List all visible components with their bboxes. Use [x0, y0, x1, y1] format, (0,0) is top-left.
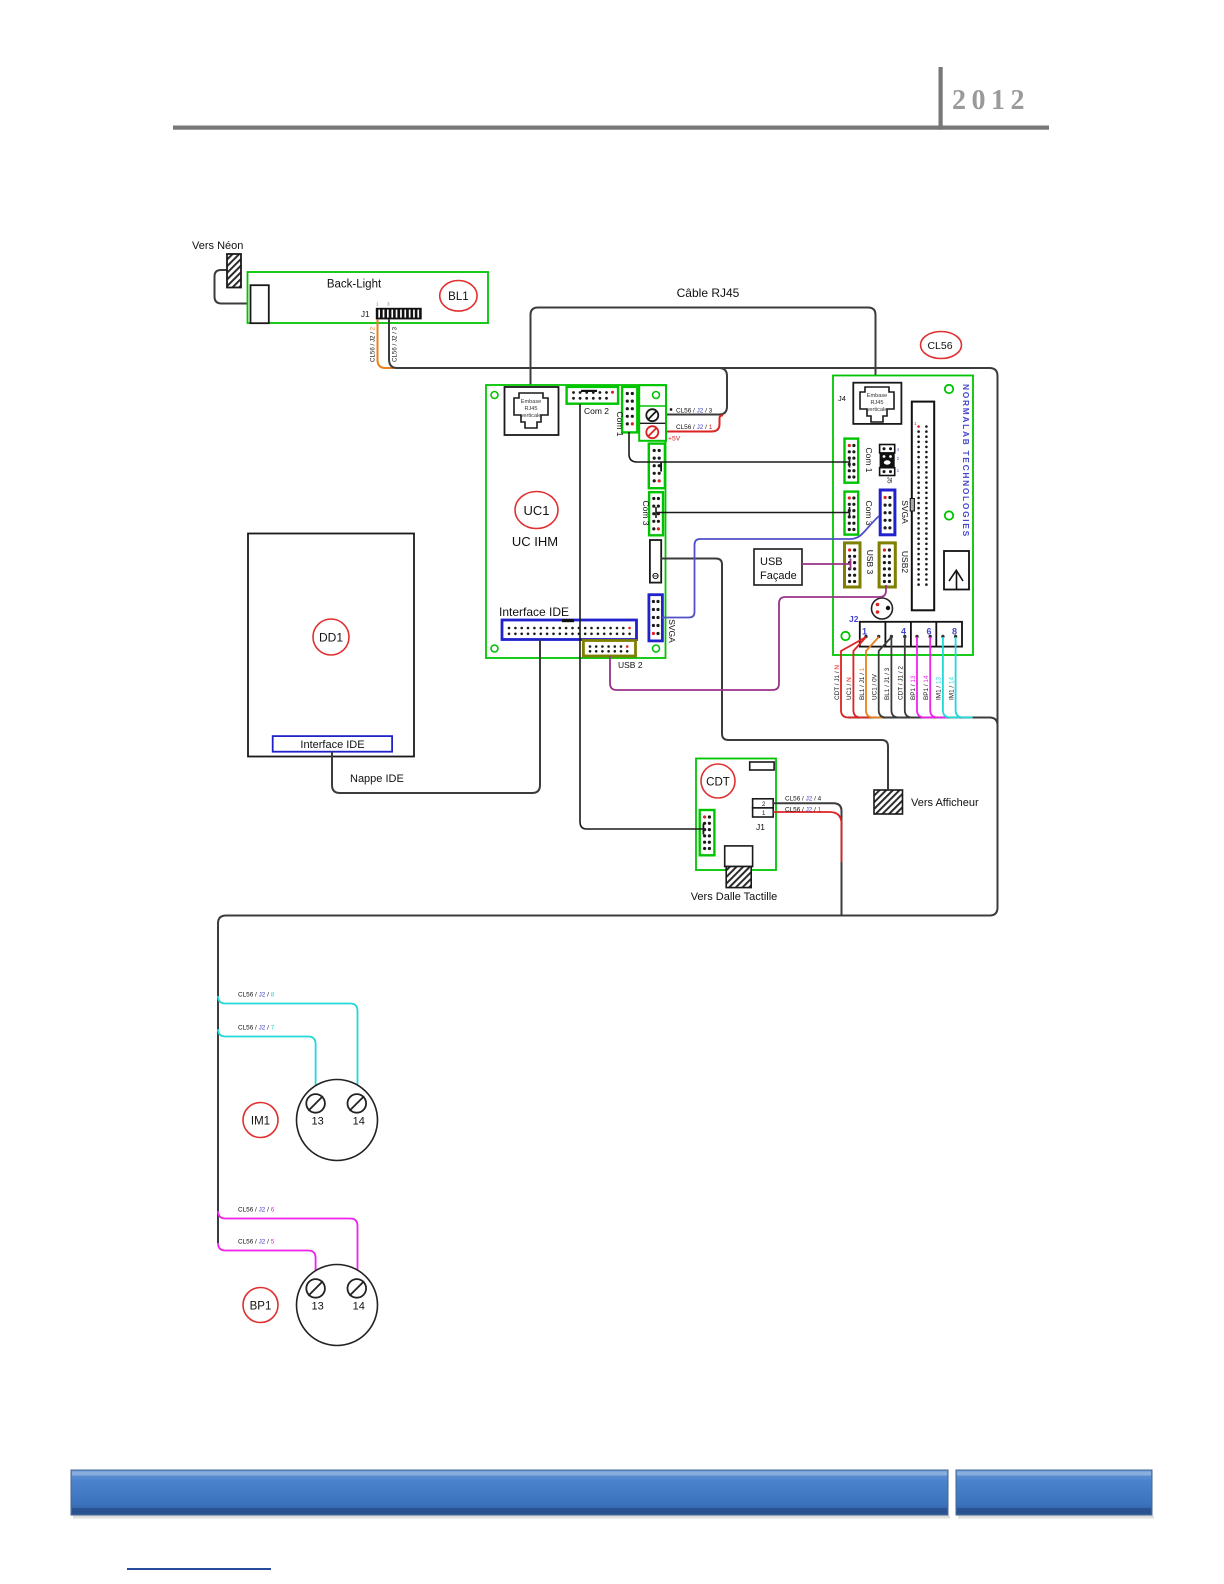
- footer bar left: [71, 1470, 950, 1519]
- wire USB Façade to CL56 USB3 (purple): [802, 559, 851, 570]
- label CDT / J1 / 2 (rotated): [898, 666, 905, 700]
- board DD1: [248, 534, 414, 757]
- designator circle DD1: [313, 619, 349, 655]
- label J1 (BL1): [361, 310, 370, 319]
- wire J2 BL1 / J1 / 1: [866, 637, 883, 718]
- svg-text:Embase: Embase: [867, 393, 888, 399]
- svg-text:Interface IDE: Interface IDE: [499, 605, 569, 619]
- board UC1 outline: [486, 385, 666, 658]
- svg-text:BL1: BL1: [448, 291, 468, 303]
- label IM1 / 14 (rotated): [948, 676, 955, 700]
- svg-text:J2: J2: [849, 614, 859, 624]
- jumper pin marks (blue): [897, 447, 900, 473]
- wire CDT J1 pin2 to bus (black) CL56/J2/4: [773, 803, 841, 915]
- svg-text:Vers Néon: Vers Néon: [192, 240, 243, 252]
- terminal strip J2: [860, 622, 962, 647]
- svg-text:NORMALAB TECHNOLOGIES: NORMALAB TECHNOLOGIES: [961, 384, 971, 538]
- wire J2 UC1 / N: [853, 637, 870, 718]
- label CL56 / J2 / 7: [238, 1025, 275, 1032]
- label UC1 / N (rotated): [846, 677, 853, 700]
- connector Com 3 (UC1): [649, 492, 663, 535]
- connector J1 (CDT): [753, 799, 774, 817]
- svg-text:UC1 / 0V: UC1 / 0V: [872, 673, 879, 700]
- label CL56 / J2 / 3 (rotated, BL1 black wire): [392, 326, 399, 362]
- label Vers Dalle Tactille: [691, 891, 778, 903]
- designator circle IM1: [243, 1103, 278, 1138]
- svg-text:CL56 / J2 / 6: CL56 / J2 / 6: [238, 1207, 275, 1214]
- label Vers Néon: [192, 240, 243, 252]
- label Com 3 (UC1, rotated): [641, 500, 651, 525]
- label CL56 / J2 / 5: [238, 1239, 275, 1246]
- connector USB 2 (UC1): [583, 641, 635, 657]
- svg-text:14: 14: [353, 1300, 365, 1312]
- svg-text:J1: J1: [756, 822, 765, 832]
- svg-text:CL56 / J2 / 1: CL56 / J2 / 1: [676, 424, 713, 431]
- label UC1 / 0V (rotated): [872, 673, 879, 700]
- wire neon connector to BL1: [215, 270, 252, 304]
- terminal 14 (BP1): [348, 1279, 367, 1312]
- label Com 3 (CL56, rotated): [864, 500, 874, 525]
- connector SVGA (UC1): [649, 595, 663, 641]
- label CL56 / J2 / 1 (CDT): [785, 806, 822, 813]
- svg-text:UC1 / N: UC1 / N: [846, 677, 853, 700]
- svg-text:USB: USB: [760, 556, 783, 568]
- svg-text:J5: J5: [886, 477, 893, 484]
- designator circle CDT: [701, 764, 735, 798]
- wire UC1 Com2 to CDT connector: [580, 404, 704, 835]
- label CL56 / J2 / 8: [238, 992, 275, 999]
- svg-text:CL56 / J2 / 5: CL56 / J2 / 5: [238, 1239, 275, 1246]
- connector CDT left (green): [700, 810, 715, 855]
- label SVGA (UC1, rotated): [667, 619, 677, 643]
- hatched connector Vers Afficheur: [874, 790, 903, 814]
- wire CL56/J2/5 to BP1 13 (magenta): [218, 1243, 316, 1279]
- svg-text:J4: J4: [838, 394, 846, 403]
- label BL1 / J1 / 1 (rotated): [859, 667, 866, 700]
- label CDT / J1 / N (rotated): [834, 665, 841, 700]
- label Vers Afficheur: [911, 797, 979, 809]
- wire CDT J1 pin1 (red) CL56/J2/1: [773, 812, 841, 862]
- svg-text:IM1 / 14: IM1 / 14: [948, 676, 955, 700]
- connector J1 (BL1) striped: [376, 308, 422, 320]
- CL56 arrow box: [944, 551, 969, 590]
- footer link underline: [127, 1568, 271, 1570]
- label J2: [849, 614, 859, 624]
- wire J2 BP1 / 13: [917, 637, 934, 718]
- svg-text:IM1: IM1: [251, 1116, 270, 1128]
- wire BL1 J1 pin1 to bus (orange): [378, 319, 395, 368]
- svg-text:CL56 / J2 / 2: CL56 / J2 / 2: [370, 326, 377, 362]
- label J1 (CDT): [756, 822, 765, 832]
- CL56 round connector: [872, 598, 893, 619]
- terminal 14 (IM1): [348, 1094, 367, 1127]
- connector Interface IDE (UC1): [502, 619, 637, 640]
- wire J2 BL1 / J1 / 3: [891, 637, 908, 718]
- designator circle CL56: [921, 332, 962, 359]
- label USB 2 (UC1): [618, 660, 643, 670]
- label Interface IDE (UC1): [499, 605, 569, 619]
- svg-text:J1: J1: [361, 310, 370, 319]
- wire J2 CDT / J1 / 2: [905, 637, 922, 718]
- terminal 13 (IM1): [306, 1094, 325, 1127]
- label SVGA (CL56, rotated): [900, 500, 910, 524]
- svg-text:Com 1: Com 1: [864, 447, 874, 472]
- label USB2 (rotated): [900, 551, 910, 573]
- label NORMALAB TECHNOLOGIES (rotated): [961, 384, 971, 538]
- wire harness bus: BL1 top run, right side, bottom run, left drop: [218, 368, 998, 1243]
- svg-text:14: 14: [353, 1115, 365, 1127]
- designator circle BP1: [243, 1288, 278, 1323]
- svg-text:13: 13: [311, 1115, 323, 1127]
- CL56 main 64-pin connector: [910, 402, 934, 611]
- label J4: [838, 394, 846, 403]
- svg-text:BP1 / 14: BP1 / 14: [923, 675, 930, 700]
- label IM1 / 13 (rotated): [936, 676, 943, 700]
- header rule horizontal: [173, 126, 1049, 130]
- wire CL56/J2/6 to BP1 14 (magenta): [218, 1211, 358, 1279]
- svg-text:USB 2: USB 2: [618, 660, 643, 670]
- svg-text:BL1 / J1 / 1: BL1 / J1 / 1: [859, 667, 866, 700]
- svg-text:verticale: verticale: [521, 413, 542, 419]
- svg-text:SVGA: SVGA: [667, 619, 677, 643]
- svg-text:BP1 / 13: BP1 / 13: [910, 675, 917, 700]
- svg-text:Com 2: Com 2: [584, 406, 609, 416]
- label Com 2: [584, 406, 609, 416]
- label Com 1 (CL56, rotated): [864, 447, 874, 472]
- connector USB 3 (CL56): [845, 543, 861, 587]
- J2 harness drop bus segment: [848, 718, 998, 726]
- svg-text:UC IHM: UC IHM: [512, 534, 558, 549]
- device circle IM1: [297, 1080, 378, 1161]
- wire CL56/J2/7 to IM1 13 (cyan): [218, 1029, 316, 1094]
- wire branch from bus to UC1 terminal CL56/J2/3 (black): [667, 368, 727, 415]
- svg-text:BP1: BP1: [250, 1301, 272, 1313]
- DD1 Interface IDE box: [273, 736, 392, 752]
- connector USB 2 (CL56): [879, 543, 895, 587]
- svg-text:Nappe IDE: Nappe IDE: [350, 773, 404, 785]
- label Câble RJ45: [677, 286, 740, 300]
- board BL1 Back-Light: [248, 272, 489, 323]
- wire UC1 aux connector to Vers Afficheur: [661, 559, 888, 791]
- svg-text:Back-Light: Back-Light: [327, 279, 382, 291]
- wire J2 CDT / J1 / N: [841, 637, 866, 718]
- svg-text:Embase: Embase: [521, 399, 542, 405]
- svg-text:RJ45: RJ45: [524, 406, 537, 412]
- box USB Façade: [754, 549, 802, 585]
- connector Com 1 (UC1): [622, 387, 637, 433]
- svg-text:CDT / J1 / N: CDT / J1 / N: [834, 665, 841, 700]
- connector SVGA (CL56): [880, 490, 895, 535]
- wire J2 IM1 / 13: [943, 637, 960, 718]
- label BP1 / 14 (rotated): [923, 675, 930, 700]
- connector Com 2 (UC1): [567, 387, 619, 404]
- BL1 side connector (white box): [251, 285, 269, 323]
- svg-text:Vers Dalle Tactille: Vers Dalle Tactille: [691, 891, 778, 903]
- label CL56 / J2 / 2 (rotated, BL1 orange wire): [370, 326, 377, 362]
- svg-text:RJ45: RJ45: [870, 400, 883, 406]
- label J5 (rotated): [886, 477, 893, 484]
- svg-text:CL56 / J2 / 7: CL56 / J2 / 7: [238, 1025, 275, 1032]
- svg-text:Vers Afficheur: Vers Afficheur: [911, 797, 979, 809]
- svg-text:CL56 / J2 / 3: CL56 / J2 / 3: [676, 408, 713, 415]
- label CL56 / J2 / 4: [785, 796, 822, 803]
- connector aux serial (UC1, below terminals): [649, 444, 665, 489]
- UC1 screw terminal block: [639, 385, 666, 441]
- CL56 RJ45 jack J4: [853, 383, 901, 424]
- UC1 RJ45 jack: [505, 387, 559, 435]
- designator circle BL1: [440, 281, 477, 312]
- J2 pins: [864, 635, 957, 638]
- label BP1 / 13 (rotated): [910, 675, 917, 700]
- CL56 mounting holes: [841, 385, 953, 640]
- svg-text:2012: 2012: [952, 85, 1030, 116]
- svg-text:UC1: UC1: [523, 503, 549, 518]
- wire CL56/J2/8 to IM1 14 (cyan): [218, 996, 358, 1094]
- label CL56 / J2 / 6: [238, 1207, 275, 1214]
- svg-text:DD1: DD1: [319, 631, 343, 645]
- svg-text:Câble RJ45: Câble RJ45: [677, 286, 740, 300]
- label Nappe IDE: [350, 773, 404, 785]
- wire J2 IM1 / 14: [956, 637, 973, 718]
- board CL56 outline: [833, 376, 973, 656]
- svg-text:Interface IDE: Interface IDE: [300, 739, 364, 751]
- neon connector (hatched): [227, 254, 241, 288]
- wire UC1 Com3 to CL56 Com3: [656, 507, 850, 518]
- wire UC1 SVGA to CL56 SVGA (blue): [662, 516, 879, 618]
- device circle BP1: [297, 1265, 378, 1346]
- wire Nappe IDE (DD1 to UC1 interface IDE): [332, 640, 540, 794]
- label BL1 / J1 / 3 (rotated): [884, 667, 891, 700]
- svg-text:Com 3: Com 3: [641, 500, 651, 525]
- svg-text:CL56 / J2 / 8: CL56 / J2 / 8: [238, 992, 275, 999]
- svg-text:verticale: verticale: [867, 407, 888, 413]
- svg-text:CL56 / J2 / 4: CL56 / J2 / 4: [785, 796, 822, 803]
- label CL56 / J2 / 3 at UC1 terminal: [670, 408, 713, 415]
- header year 2012: [952, 85, 1030, 116]
- hatched connector Vers Dalle Tactille: [726, 867, 751, 888]
- svg-text:USB2: USB2: [900, 551, 910, 573]
- svg-text:USB 3: USB 3: [865, 550, 875, 575]
- board CDT: [696, 759, 776, 871]
- header rule vertical: [939, 67, 943, 130]
- svg-text:CL56 / J2 / 3: CL56 / J2 / 3: [392, 326, 399, 362]
- connector Com 3 (CL56): [845, 492, 859, 535]
- designator circle UC1: [515, 492, 558, 529]
- wire UC1 +5V terminal to bus CL56/J2/1 (red): [667, 415, 723, 431]
- wire BL1 J1 pin3 to bus (black): [389, 319, 406, 368]
- J2 pin numbers 1 4 6 8: [862, 627, 957, 637]
- wire UC1 USB2 to CL56 USB2 (purple): [610, 585, 886, 690]
- UC1 aux black connector: [650, 540, 661, 583]
- svg-text:CL56: CL56: [927, 340, 952, 352]
- wire Câble RJ45 (UC1 RJ45 to CL56 J4): [531, 308, 876, 386]
- svg-text:+5V: +5V: [668, 436, 681, 443]
- svg-text:Com 1: Com 1: [615, 411, 625, 436]
- svg-text:CL56 / J2 / 1: CL56 / J2 / 1: [785, 806, 822, 813]
- terminal 13 (BP1): [306, 1279, 325, 1312]
- connector Com 1 (CL56): [845, 439, 859, 483]
- wire J2 UC1 / 0V: [879, 637, 896, 718]
- svg-text:CDT: CDT: [706, 777, 730, 789]
- label USB 3 (rotated): [865, 550, 875, 575]
- wire J2 BP1 / 14: [930, 637, 947, 718]
- svg-text:Façade: Façade: [760, 570, 797, 582]
- pin numbers 1 3 above J1: [376, 302, 390, 307]
- svg-text:13: 13: [311, 1300, 323, 1312]
- CDT top-right small box: [750, 762, 774, 770]
- label CL56 / J2 / 1 at UC1 terminal: [676, 424, 713, 431]
- label Com 1 (UC1, rotated): [615, 411, 625, 436]
- label UC IHM: [512, 534, 558, 549]
- UC1 mounting holes: [491, 392, 660, 653]
- jumper block J5 (CL56): [880, 445, 895, 476]
- svg-text:BL1 / J1 / 3: BL1 / J1 / 3: [884, 667, 891, 700]
- wire UC1 Com1 to CL56 Com1: [629, 432, 850, 468]
- svg-text:IM1 / 13: IM1 / 13: [936, 676, 943, 700]
- label +5V: [668, 436, 681, 443]
- svg-text:SVGA: SVGA: [900, 500, 910, 524]
- svg-text:CDT / J1 / 2: CDT / J1 / 2: [898, 666, 905, 700]
- footer bar right: [956, 1470, 1154, 1519]
- CDT white box to dalle tactile: [725, 846, 753, 867]
